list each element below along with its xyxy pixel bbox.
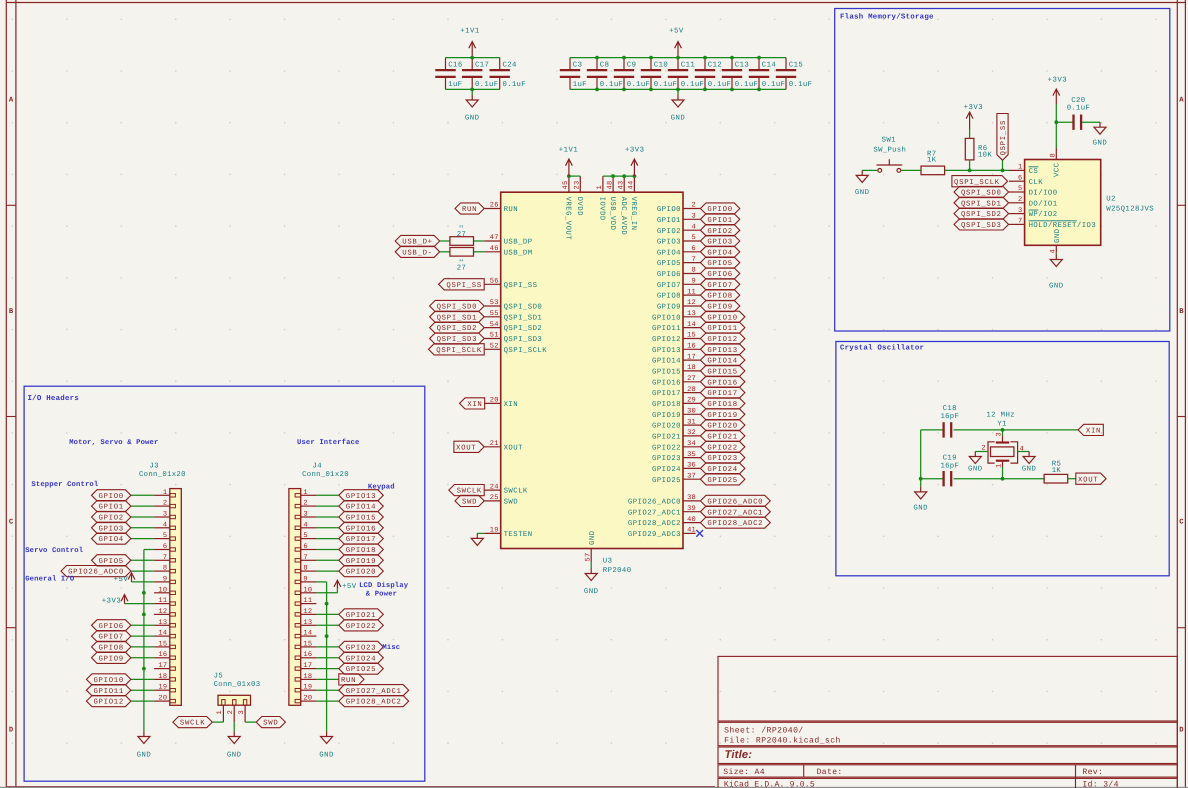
svg-text:C: C bbox=[9, 519, 14, 527]
svg-text:GPIO9: GPIO9 bbox=[98, 655, 123, 663]
svg-text:GND: GND bbox=[1093, 140, 1108, 148]
svg-text:GPIO0: GPIO0 bbox=[98, 493, 123, 501]
svg-text:9: 9 bbox=[303, 575, 307, 583]
wire SWD to J5.3 bbox=[245, 721, 256, 723]
svg-text:20: 20 bbox=[158, 695, 167, 703]
svg-text:14: 14 bbox=[158, 630, 167, 638]
svg-text:B: B bbox=[1179, 308, 1184, 316]
svg-text:Title:: Title: bbox=[725, 749, 753, 761]
svg-text:7: 7 bbox=[163, 554, 167, 562]
svg-text:16: 16 bbox=[687, 343, 696, 351]
svg-text:C15: C15 bbox=[789, 62, 803, 70]
svg-text:GPIO12: GPIO12 bbox=[707, 336, 737, 344]
wire GPIO26_ADC0 to J3.8 bbox=[131, 570, 154, 572]
svg-text:R4: R4 bbox=[459, 258, 463, 262]
junction bbox=[919, 477, 923, 481]
wire GPIO9 to J3.16 bbox=[131, 657, 154, 659]
svg-text:17: 17 bbox=[687, 353, 696, 361]
svg-text:GPIO23: GPIO23 bbox=[346, 645, 376, 653]
svg-text:+1V1: +1V1 bbox=[460, 28, 480, 36]
svg-text:+5V: +5V bbox=[114, 576, 129, 584]
svg-text:43: 43 bbox=[617, 181, 625, 190]
J4 pin 6 bbox=[301, 549, 317, 551]
svg-text:QSPI_SD1: QSPI_SD1 bbox=[961, 200, 1002, 208]
global label GPIO24 bbox=[339, 652, 384, 663]
global label GPIO21 bbox=[339, 609, 384, 620]
J4 pin 19 bbox=[301, 689, 317, 691]
svg-text:31: 31 bbox=[687, 418, 696, 426]
svg-text:12: 12 bbox=[303, 608, 312, 616]
svg-text:6: 6 bbox=[692, 245, 696, 253]
wire GPIO7 to J3.14 bbox=[131, 635, 154, 637]
svg-text:GND: GND bbox=[227, 752, 242, 760]
capacitor C11 bbox=[668, 58, 688, 90]
wire GPIO4 to J3.5 bbox=[131, 538, 154, 540]
ground TESTEN bbox=[471, 533, 483, 545]
svg-text:GPIO8: GPIO8 bbox=[707, 293, 732, 301]
pin 29 GPIO18 bbox=[683, 402, 700, 404]
J4 pin 7 bbox=[301, 559, 317, 561]
svg-text:File: RP2040.kicad_sch: File: RP2040.kicad_sch bbox=[724, 736, 841, 745]
wire GPIO20 to J4.8 bbox=[316, 570, 338, 572]
svg-text:QSPI_SS: QSPI_SS bbox=[446, 282, 482, 290]
global label GPIO5 bbox=[92, 555, 131, 566]
svg-text:GPIO24: GPIO24 bbox=[652, 466, 681, 474]
ground J3 bbox=[138, 732, 150, 744]
svg-text:GPIO19: GPIO19 bbox=[707, 412, 737, 420]
global label USB_D+ bbox=[395, 235, 440, 246]
wire GPIO2 to J3.3 bbox=[131, 516, 154, 518]
switch SW1 SW_Push bbox=[877, 159, 903, 172]
wire GPIO23 to J4.15 bbox=[316, 646, 338, 648]
svg-text:GPIO11: GPIO11 bbox=[707, 325, 737, 333]
wire to GND bbox=[677, 89, 679, 95]
svg-text:5: 5 bbox=[163, 532, 167, 540]
wire GPIO3 to J3.4 bbox=[131, 527, 154, 529]
svg-text:RUN: RUN bbox=[341, 677, 356, 685]
svg-text:Keypad: Keypad bbox=[368, 482, 395, 491]
pin 18 GPIO15 bbox=[683, 370, 700, 372]
J3 pin 15 bbox=[154, 646, 170, 648]
junction bbox=[567, 174, 571, 178]
svg-text:QSPI_SD0: QSPI_SD0 bbox=[504, 304, 543, 312]
svg-text:GPIO28_ADC2: GPIO28_ADC2 bbox=[346, 699, 402, 707]
svg-text:C12: C12 bbox=[708, 62, 722, 70]
global label GPIO17 bbox=[700, 387, 745, 398]
global label GPIO12 bbox=[86, 696, 130, 707]
wire xtal left vertical bbox=[920, 430, 922, 479]
svg-text:2: 2 bbox=[303, 500, 307, 508]
pin 48 USB_VDD bbox=[612, 176, 614, 192]
global label SWCLK bbox=[449, 485, 484, 496]
svg-text:1: 1 bbox=[163, 489, 167, 497]
global label GPIO28_ADC2 bbox=[700, 517, 770, 528]
global label GPIO4 bbox=[92, 533, 131, 544]
wire GPIO27_ADC1 to J4.19 bbox=[316, 689, 338, 691]
svg-text:0.1uF: 0.1uF bbox=[681, 81, 704, 89]
global label QSPI_SCLK bbox=[429, 344, 485, 355]
wire SWCLK to J5.1 bbox=[212, 721, 223, 723]
capacitor C12 bbox=[695, 58, 715, 90]
svg-text:34: 34 bbox=[687, 440, 696, 448]
pin 40 GPIO28_ADC2 bbox=[683, 522, 700, 524]
svg-text:12: 12 bbox=[158, 608, 167, 616]
global label GPIO22 bbox=[339, 620, 384, 631]
ground bbox=[1050, 255, 1062, 267]
svg-text:54: 54 bbox=[490, 321, 499, 329]
svg-text:Motor, Servo & Power: Motor, Servo & Power bbox=[69, 439, 158, 447]
svg-text:I/O Headers: I/O Headers bbox=[28, 394, 80, 403]
svg-text:Conn_01x20: Conn_01x20 bbox=[139, 471, 186, 479]
svg-text:VCC: VCC bbox=[1054, 162, 1062, 177]
svg-text:+3V3: +3V3 bbox=[102, 598, 122, 606]
global label GPIO16 bbox=[339, 522, 384, 533]
svg-text:QSPI_SD0: QSPI_SD0 bbox=[437, 304, 478, 312]
pin 4 GND bbox=[1055, 245, 1057, 253]
svg-text:9: 9 bbox=[163, 575, 167, 583]
svg-text:GPIO2: GPIO2 bbox=[657, 228, 681, 236]
svg-text:4: 4 bbox=[692, 223, 696, 231]
svg-text:5: 5 bbox=[1018, 185, 1022, 193]
svg-text:GPIO16: GPIO16 bbox=[652, 379, 681, 387]
wire +3V3 to R6 bbox=[969, 129, 971, 139]
svg-text:GPIO15: GPIO15 bbox=[707, 369, 737, 377]
svg-text:GPIO26_ADC0: GPIO26_ADC0 bbox=[628, 499, 681, 507]
svg-text:QSPI_SD0: QSPI_SD0 bbox=[961, 190, 1002, 198]
svg-text:USB_VDD: USB_VDD bbox=[608, 197, 616, 231]
global label GPIO18 bbox=[700, 398, 745, 409]
svg-text:48: 48 bbox=[606, 181, 614, 190]
wire GPIO11 to J3.19 bbox=[131, 689, 154, 691]
svg-text:GND: GND bbox=[1049, 283, 1064, 291]
svg-text:GPIO21: GPIO21 bbox=[652, 434, 681, 442]
wire GPIO10 to J3.18 bbox=[131, 678, 154, 680]
svg-text:GPIO29_ADC3: GPIO29_ADC3 bbox=[628, 531, 681, 539]
svg-text:28: 28 bbox=[687, 386, 696, 394]
ground bbox=[856, 170, 868, 182]
junction bbox=[703, 88, 707, 92]
svg-text:10: 10 bbox=[158, 586, 167, 594]
global label XOUT bbox=[454, 441, 484, 452]
pin 2 DO/IO1 bbox=[1009, 202, 1025, 204]
svg-text:GPIO7: GPIO7 bbox=[657, 282, 681, 290]
global label GPIO22 bbox=[700, 441, 745, 452]
svg-text:Conn_01x03: Conn_01x03 bbox=[214, 681, 261, 689]
svg-text:14: 14 bbox=[303, 630, 312, 638]
wire GPIO15 to J4.3 bbox=[316, 516, 338, 518]
svg-text:GPIO17: GPIO17 bbox=[346, 536, 376, 544]
svg-text:GPIO6: GPIO6 bbox=[707, 271, 732, 279]
svg-text:Rev:: Rev: bbox=[1082, 768, 1103, 777]
junction bbox=[649, 88, 653, 92]
J4 pin 14 bbox=[301, 635, 317, 637]
svg-text:GPIO26_ADC0: GPIO26_ADC0 bbox=[707, 499, 763, 507]
svg-text:Crystal Oscillator: Crystal Oscillator bbox=[840, 343, 924, 352]
svg-text:XOUT: XOUT bbox=[1078, 476, 1098, 484]
svg-text:WP/IO2: WP/IO2 bbox=[1029, 210, 1058, 219]
svg-text:GPIO12: GPIO12 bbox=[93, 699, 123, 707]
svg-text:16: 16 bbox=[303, 651, 312, 659]
svg-text:27: 27 bbox=[457, 231, 467, 239]
J3 pin 1 bbox=[154, 494, 170, 496]
junction bbox=[595, 56, 599, 60]
svg-text:C17: C17 bbox=[475, 62, 489, 70]
global label GPIO25 bbox=[339, 663, 384, 674]
svg-text:Flash Memory/Storage: Flash Memory/Storage bbox=[840, 13, 934, 22]
wire Y1 pin4 bbox=[1018, 451, 1030, 453]
capacitor C13 bbox=[722, 58, 742, 90]
svg-text:D: D bbox=[9, 727, 14, 735]
svg-text:4: 4 bbox=[1020, 446, 1024, 454]
global label XIN bbox=[1078, 424, 1103, 435]
svg-text:GPIO10: GPIO10 bbox=[93, 677, 123, 685]
connector J5 Conn_01x03 body bbox=[218, 695, 251, 705]
pin 16 GPIO13 bbox=[683, 348, 700, 350]
global label QSPI_SS bbox=[439, 279, 485, 290]
J3 pin 16 bbox=[154, 657, 170, 659]
junction bbox=[703, 56, 707, 60]
svg-text:7: 7 bbox=[692, 256, 696, 264]
connector J3 Conn_01x20 body bbox=[170, 489, 182, 706]
svg-text:2: 2 bbox=[692, 202, 696, 210]
wire SW1 left bbox=[862, 169, 878, 171]
svg-text:GPIO22: GPIO22 bbox=[346, 623, 376, 631]
svg-text:QSPI_SCLK: QSPI_SCLK bbox=[436, 347, 482, 355]
ground J5 bbox=[228, 732, 240, 744]
junction bbox=[757, 88, 761, 92]
svg-text:0.1uF: 0.1uF bbox=[762, 81, 785, 89]
svg-text:23: 23 bbox=[574, 181, 582, 190]
svg-text:3: 3 bbox=[692, 213, 696, 221]
svg-text:38: 38 bbox=[687, 494, 696, 502]
svg-text:J4: J4 bbox=[313, 463, 323, 471]
capacitor C15 bbox=[776, 58, 796, 90]
svg-text:GPIO5: GPIO5 bbox=[707, 260, 732, 268]
global label GPIO6 bbox=[92, 620, 131, 631]
svg-text:20: 20 bbox=[303, 695, 312, 703]
resistor R6 bbox=[965, 138, 974, 160]
global label GPIO23 bbox=[700, 452, 745, 463]
pin 34 GPIO22 bbox=[683, 446, 700, 448]
svg-text:J3: J3 bbox=[149, 463, 159, 471]
svg-text:XOUT: XOUT bbox=[456, 444, 476, 452]
wire J3 ground bus bbox=[143, 550, 145, 732]
pin 7 GPIO5 bbox=[683, 262, 700, 264]
svg-text:GND: GND bbox=[137, 752, 152, 760]
svg-text:GPIO13: GPIO13 bbox=[707, 347, 737, 355]
J5 pin 1 bbox=[222, 705, 224, 722]
svg-text:C10: C10 bbox=[654, 62, 668, 70]
wire R7 to CS bbox=[945, 169, 1009, 171]
global label GPIO6 bbox=[700, 268, 739, 279]
svg-text:15: 15 bbox=[303, 640, 312, 648]
global label GPIO15 bbox=[339, 511, 384, 522]
global label GPIO27_ADC1 bbox=[339, 685, 409, 696]
svg-text:C: C bbox=[1179, 519, 1184, 527]
global label GPIO21 bbox=[700, 430, 745, 441]
svg-text:GPIO3: GPIO3 bbox=[98, 525, 123, 533]
global label GPIO8 bbox=[700, 290, 739, 301]
svg-text:55: 55 bbox=[490, 310, 499, 318]
svg-text:D: D bbox=[1179, 727, 1184, 735]
J4 pin 17 bbox=[301, 668, 317, 670]
pin 14 GPIO11 bbox=[683, 327, 700, 329]
capacitor C24 bbox=[490, 58, 510, 90]
svg-text:12 MHz: 12 MHz bbox=[986, 411, 1015, 419]
svg-text:U3: U3 bbox=[603, 558, 613, 566]
svg-text:2: 2 bbox=[1018, 196, 1022, 204]
junction bbox=[1001, 428, 1005, 432]
J3 pin 9 bbox=[154, 581, 170, 583]
svg-text:XIN: XIN bbox=[1086, 428, 1101, 436]
J4 pin 1 bbox=[301, 494, 317, 496]
svg-text:QSPI_SS: QSPI_SS bbox=[504, 282, 538, 290]
J4 pin 10 bbox=[301, 592, 317, 594]
svg-text:QSPI_SCLK: QSPI_SCLK bbox=[954, 179, 1000, 187]
svg-text:4: 4 bbox=[163, 521, 167, 529]
global label XIN bbox=[460, 398, 485, 409]
pin 3 GPIO1 bbox=[683, 218, 700, 220]
pin 1 CS bbox=[1009, 169, 1025, 171]
global label QSPI_SD2 bbox=[954, 208, 1009, 219]
capacitor C16 bbox=[435, 58, 455, 90]
svg-text:1K: 1K bbox=[1052, 467, 1062, 475]
svg-text:GPIO8: GPIO8 bbox=[657, 293, 681, 301]
svg-text:GPIO6: GPIO6 bbox=[657, 271, 681, 279]
svg-text:Date:: Date: bbox=[817, 768, 843, 777]
global label GPIO18 bbox=[339, 544, 384, 555]
global label GPIO12 bbox=[700, 333, 745, 344]
svg-text:18: 18 bbox=[303, 673, 312, 681]
svg-text:10K: 10K bbox=[978, 151, 992, 159]
svg-text:52: 52 bbox=[490, 343, 499, 351]
svg-text:0.1uF: 0.1uF bbox=[475, 81, 498, 89]
ground bbox=[969, 452, 981, 464]
power +5V bbox=[675, 42, 682, 58]
svg-text:GND: GND bbox=[913, 504, 928, 512]
wire GPIO13 to J4.1 bbox=[316, 494, 338, 496]
svg-text:0.1uF: 0.1uF bbox=[654, 81, 677, 89]
wire GPIO28_ADC2 to J4.20 bbox=[316, 700, 338, 702]
junction bbox=[142, 667, 146, 671]
svg-text:1: 1 bbox=[303, 489, 307, 497]
junction bbox=[325, 634, 329, 638]
svg-text:GPIO20: GPIO20 bbox=[707, 423, 737, 431]
global label GPIO7 bbox=[700, 279, 739, 290]
svg-text:37: 37 bbox=[687, 472, 696, 480]
svg-text:19: 19 bbox=[490, 527, 499, 535]
svg-text:QSPI_SD3: QSPI_SD3 bbox=[504, 336, 543, 344]
svg-text:GPIO21: GPIO21 bbox=[346, 612, 376, 620]
svg-text:Size: A4: Size: A4 bbox=[723, 768, 765, 777]
svg-text:15: 15 bbox=[687, 332, 696, 340]
J4 pin 16 bbox=[301, 657, 317, 659]
J3 pin 12 bbox=[154, 613, 170, 615]
wire QSPI_SS to CS net bbox=[1002, 160, 1004, 170]
wire +1V1 cap rail bottom bbox=[446, 88, 500, 90]
pin 53 QSPI_SD0 bbox=[484, 305, 501, 307]
svg-text:VREG_IN: VREG_IN bbox=[629, 197, 637, 231]
pin 8 GPIO6 bbox=[683, 273, 700, 275]
svg-text:& Power: & Power bbox=[366, 591, 397, 599]
J4 pin 15 bbox=[301, 646, 317, 648]
svg-text:46: 46 bbox=[490, 245, 499, 253]
capacitor C10 bbox=[641, 58, 661, 90]
global label GPIO3 bbox=[92, 522, 131, 533]
wire bbox=[440, 251, 451, 253]
svg-text:C8: C8 bbox=[600, 62, 610, 70]
svg-text:GPIO22: GPIO22 bbox=[707, 444, 737, 452]
svg-text:USB_DM: USB_DM bbox=[504, 249, 533, 257]
wire J5.2 gnd bbox=[233, 722, 235, 731]
global label GPIO1 bbox=[700, 214, 739, 225]
svg-text:56: 56 bbox=[490, 278, 499, 286]
svg-text:RP2040: RP2040 bbox=[603, 567, 632, 575]
svg-text:B: B bbox=[9, 308, 14, 316]
pin 19 TESTEN bbox=[484, 532, 501, 534]
box Flash Memory/Storage bbox=[835, 9, 1170, 332]
svg-text:19: 19 bbox=[158, 684, 167, 692]
svg-text:7: 7 bbox=[303, 554, 307, 562]
svg-text:SW1: SW1 bbox=[882, 136, 897, 144]
resistor R7 bbox=[921, 166, 945, 175]
svg-text:GPIO18: GPIO18 bbox=[346, 547, 376, 555]
svg-text:GPIO27_ADC1: GPIO27_ADC1 bbox=[707, 509, 763, 517]
svg-text:GND: GND bbox=[319, 752, 334, 760]
global label GPIO17 bbox=[339, 533, 384, 544]
pin 11 GPIO8 bbox=[683, 294, 700, 296]
pin 1 IOVDD bbox=[602, 176, 604, 192]
svg-text:Id: 3/4: Id: 3/4 bbox=[1082, 780, 1118, 788]
wire +1V1 cap rail top bbox=[446, 57, 500, 59]
svg-text:Servo Control: Servo Control bbox=[25, 546, 84, 555]
svg-text:GPIO5: GPIO5 bbox=[657, 260, 681, 268]
no-connect GPIO29_ADC3 bbox=[696, 530, 703, 537]
J4 pin 13 bbox=[301, 624, 317, 626]
capacitor C9 bbox=[614, 58, 634, 90]
power +5V (J3) bbox=[128, 573, 135, 582]
ground bbox=[1094, 122, 1106, 134]
svg-text:29: 29 bbox=[687, 397, 696, 405]
wire GPIO6 to J3.13 bbox=[131, 624, 154, 626]
pin 56 QSPI_SS bbox=[484, 283, 501, 285]
svg-text:17: 17 bbox=[158, 662, 167, 670]
svg-text:GPIO24: GPIO24 bbox=[707, 466, 737, 474]
svg-text:A: A bbox=[9, 97, 14, 105]
svg-text:GPIO10: GPIO10 bbox=[652, 314, 681, 322]
pin 55 QSPI_SD1 bbox=[484, 316, 501, 318]
pin 12 GPIO9 bbox=[683, 305, 700, 307]
wire GPIO12 to J3.20 bbox=[131, 700, 154, 702]
svg-text:DI/IO0: DI/IO0 bbox=[1029, 189, 1058, 198]
svg-text:TESTEN: TESTEN bbox=[504, 531, 533, 539]
svg-text:GPIO14: GPIO14 bbox=[707, 358, 737, 366]
global label XOUT bbox=[1076, 473, 1106, 484]
svg-text:44: 44 bbox=[628, 181, 636, 190]
svg-text:+5V: +5V bbox=[342, 583, 357, 591]
svg-text:GPIO16: GPIO16 bbox=[346, 525, 376, 533]
svg-text:GND: GND bbox=[589, 530, 597, 545]
box Crystal Oscillator bbox=[836, 342, 1169, 576]
junction bbox=[1001, 477, 1005, 481]
wire xtal bottom left bbox=[921, 478, 944, 480]
svg-text:ADC_AVDD: ADC_AVDD bbox=[619, 197, 627, 236]
svg-text:GPIO27_ADC1: GPIO27_ADC1 bbox=[346, 688, 402, 696]
svg-text:7: 7 bbox=[1018, 218, 1022, 226]
svg-text:J5: J5 bbox=[214, 672, 224, 680]
global label QSPI_SD0 bbox=[430, 300, 485, 311]
svg-text:3: 3 bbox=[163, 511, 167, 519]
